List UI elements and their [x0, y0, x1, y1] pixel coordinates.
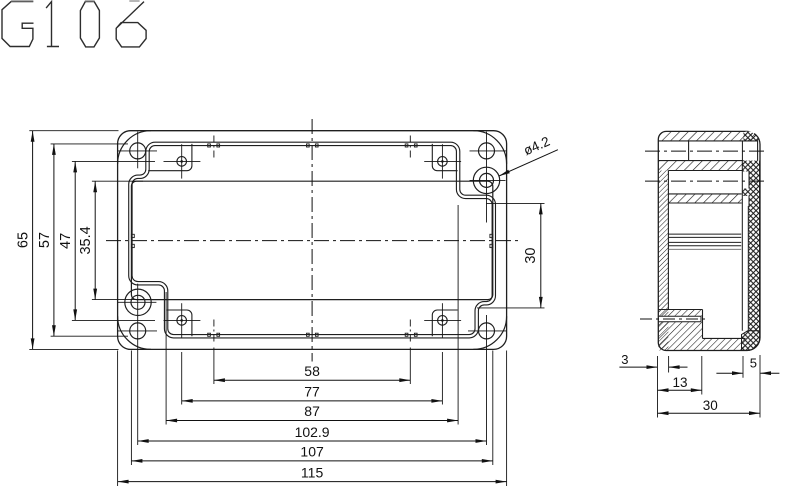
screw counterbore (white row)	[688, 141, 690, 161]
dimension 77	[182, 400, 443, 402]
boss pilot hole (white slot)	[659, 316, 701, 322]
svg-text:58: 58	[304, 363, 320, 379]
svg-text:65: 65	[16, 232, 32, 248]
svg-text:115: 115	[301, 464, 324, 480]
pcb rails	[668, 233, 741, 235]
corner post top-right (double circle)	[473, 167, 499, 193]
vertical centerline	[311, 119, 313, 362]
dimension 102.9	[138, 440, 487, 442]
enclosure outer flange outline	[118, 131, 507, 350]
pcb screw boss bottom-right	[438, 316, 448, 326]
pcb screw boss bottom-left	[177, 316, 187, 326]
horizontal centerline	[106, 240, 519, 242]
corner fillet arcs (screw lobes)	[118, 131, 507, 350]
dimension 65	[32, 131, 34, 350]
knockout centerlines	[213, 136, 215, 161]
section centerline bottom boss	[640, 318, 709, 320]
svg-text:57: 57	[37, 232, 53, 248]
svg-text:35.4: 35.4	[78, 226, 94, 254]
gasket notches (white)	[743, 172, 750, 189]
logo text G106	[2, 2, 146, 47]
clipped glyph caps	[129, 0, 139, 2]
bottom screw boss (hatched step)	[658, 310, 702, 339]
lid screw hole top-right (4.2mm)	[479, 143, 495, 159]
dimension 47	[74, 161, 76, 320]
svg-text:3: 3	[621, 352, 628, 367]
seal groove contour (double line)	[130, 144, 493, 336]
dimension 35.4	[94, 181, 96, 299]
flange band (hatched)	[658, 161, 743, 171]
dimension 87	[166, 420, 458, 422]
pcb screw boss top-left	[177, 157, 187, 167]
dimension 57	[53, 144, 55, 336]
dimension 107	[131, 460, 492, 462]
svg-text:77: 77	[304, 384, 320, 400]
pcb boss tab bottom-left	[167, 310, 192, 336]
pcb boss tab bottom-right	[432, 310, 457, 336]
svg-text:87: 87	[304, 403, 320, 419]
corner post bottom-left (double circle)	[125, 289, 151, 315]
dimension 5 (gasket)	[716, 372, 742, 374]
pcb screw boss top-right	[438, 157, 448, 167]
section lid slab (hatched)	[658, 131, 758, 141]
mid-side tick marks	[131, 234, 134, 237]
svg-text:13: 13	[672, 375, 687, 390]
lid screw hole bottom-right (4.2mm)	[479, 323, 495, 339]
svg-text:30: 30	[703, 398, 718, 413]
leader diameter 4.2	[499, 150, 558, 176]
svg-text:5: 5	[750, 355, 757, 370]
section centerline screw axis	[645, 150, 768, 152]
dimension 30	[540, 203, 542, 308]
dimension 58	[214, 379, 410, 381]
lid screw hole bottom-left (4.2mm)	[130, 323, 146, 339]
svg-text:47: 47	[58, 233, 74, 249]
gasket corner chunk	[742, 331, 760, 351]
svg-text:102.9: 102.9	[295, 424, 330, 440]
gasket strip (crosshatched)	[743, 131, 759, 141]
pcb boss tab top-left	[148, 144, 192, 171]
section centerline post axis	[645, 180, 766, 182]
bottom slab (hatched)	[658, 338, 744, 350]
lid/gasket V notch	[746, 131, 756, 139]
dimension 3 (wall)	[619, 366, 657, 368]
svg-text:107: 107	[300, 444, 324, 460]
dimension 13	[658, 389, 702, 391]
post slab (hatched)	[668, 194, 741, 203]
dimension 30 (section width)	[658, 412, 761, 414]
knockout tick marks top/bottom edges	[208, 144, 211, 147]
section view outline	[658, 131, 760, 350]
left wall (hatched)	[658, 171, 668, 351]
svg-text:30: 30	[523, 248, 539, 264]
pcb boss tab top-right	[432, 144, 457, 171]
dimension 115	[118, 481, 507, 483]
inner cavity outline	[131, 181, 492, 299]
lid screw hole top-left (4.2mm)	[130, 143, 146, 159]
